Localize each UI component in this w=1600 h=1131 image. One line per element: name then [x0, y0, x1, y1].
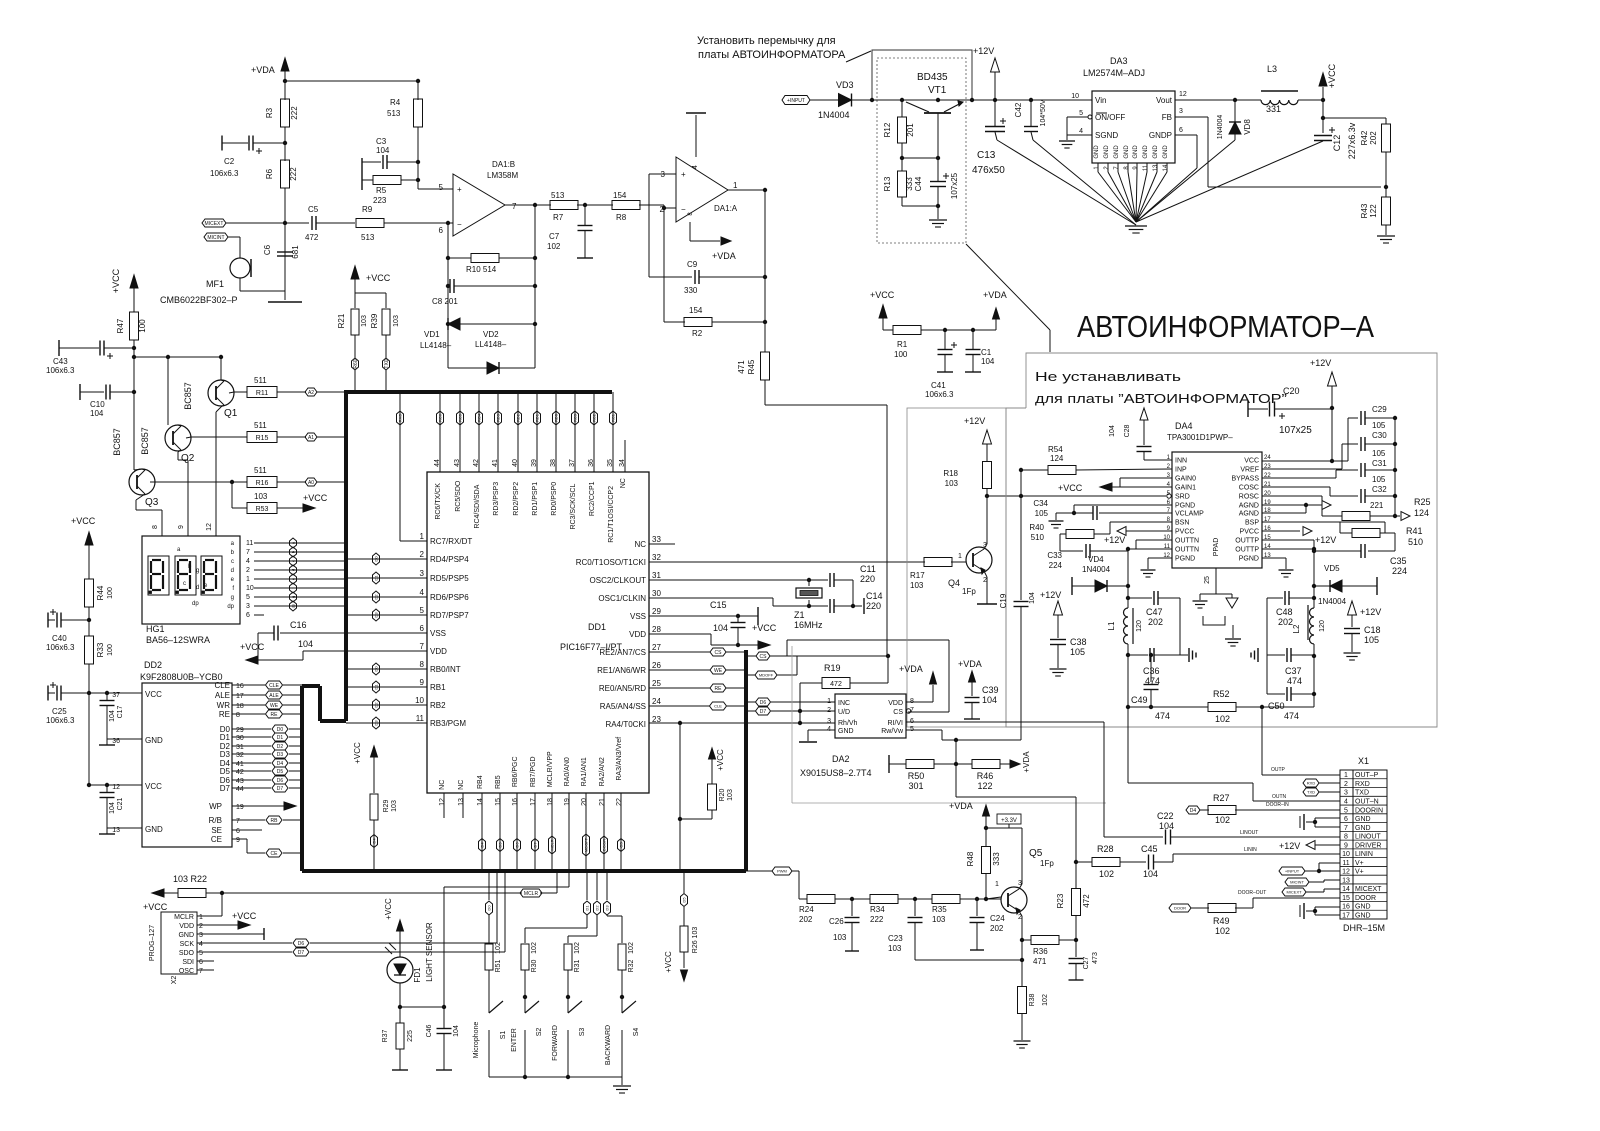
svg-text:C22: C22 [1157, 811, 1174, 821]
svg-text:CLE: CLE [714, 704, 722, 709]
resistor R26 [680, 926, 688, 952]
ground at DA3 pin4/5 [1059, 140, 1075, 142]
svg-text:PROG–127: PROG–127 [149, 925, 156, 961]
svg-text:GND: GND [145, 825, 163, 834]
net flag A2 [305, 388, 317, 396]
resistor R31 [564, 944, 572, 970]
capacitor C47 [1128, 597, 1152, 599]
DA4 PGND pin6 to ground [1074, 504, 1172, 506]
VDD pin7 wire to +VCC arrow [303, 650, 427, 652]
svg-text:5: 5 [1079, 110, 1083, 117]
svg-text:WR: WR [217, 701, 231, 710]
DA4 PGND pin12 ground [1148, 557, 1172, 559]
resistor R18 [983, 462, 992, 489]
svg-text:RB6/PGC: RB6/PGC [512, 756, 519, 787]
resistor R52 [1208, 703, 1236, 712]
svg-text:COSC: COSC [1239, 485, 1259, 492]
right capacitor rail [1394, 418, 1396, 516]
svg-text:VREF: VREF [1240, 467, 1259, 474]
svg-text:C27: C27 [1083, 956, 1090, 969]
resistor R3 [284, 81, 286, 100]
svg-text:D6: D6 [277, 778, 284, 784]
svg-text:154: 154 [689, 306, 703, 315]
svg-text:Z1: Z1 [794, 610, 805, 620]
svg-text:6: 6 [199, 959, 203, 966]
svg-text:R38: R38 [1029, 993, 1036, 1006]
resistor R12 [901, 100, 903, 117]
svg-text:RE0/AN5/RD: RE0/AN5/RD [599, 684, 646, 693]
svg-text:105: 105 [1372, 449, 1386, 458]
svg-text:RC6/TX/CK: RC6/TX/CK [435, 483, 442, 520]
svg-text:dp: dp [227, 604, 234, 610]
svg-text:3: 3 [1179, 108, 1183, 115]
svg-text:1: 1 [995, 881, 999, 888]
svg-text:MCLR: MCLR [524, 891, 539, 897]
wire DA1:A pin3 network [649, 173, 676, 175]
svg-text:R46: R46 [977, 771, 994, 781]
svg-text:WP: WP [209, 802, 222, 811]
svg-text:+: + [681, 170, 686, 179]
svg-text:MDOFF: MDOFF [759, 673, 774, 678]
resistor R37 [399, 1007, 401, 1023]
DD1 pin32 wire to R17 [649, 561, 925, 563]
wire R9 to op-amp inverting input [384, 222, 453, 224]
capacitor C5 [285, 222, 309, 224]
svg-text:7: 7 [236, 818, 240, 825]
svg-text:OUTN: OUTN [1272, 794, 1287, 800]
DD1 pin27 CS wire with flag [649, 651, 710, 653]
resistor R1 [883, 329, 893, 331]
svg-text:16: 16 [1342, 904, 1350, 911]
svg-text:6: 6 [439, 226, 444, 235]
svg-text:102: 102 [628, 942, 635, 954]
svg-text:CS: CS [893, 709, 903, 716]
capacitor C11 [809, 579, 828, 581]
svg-text:VD1: VD1 [424, 330, 440, 339]
svg-text:RD2/PSP2: RD2/PSP2 [513, 482, 520, 516]
svg-text:472: 472 [830, 681, 842, 688]
svg-text:D0: D0 [487, 905, 492, 911]
resistor R53 [231, 482, 233, 508]
svg-text:RB1: RB1 [430, 683, 446, 692]
svg-text:c: c [231, 559, 234, 565]
svg-text:DOOR: DOOR [1174, 906, 1186, 911]
svg-text:7: 7 [199, 968, 203, 975]
switch S1 ENTER [489, 1001, 503, 1013]
svg-text:BD435: BD435 [917, 72, 948, 83]
svg-text:A2: A2 [308, 390, 314, 396]
svg-text:105: 105 [1070, 647, 1085, 657]
display HG1 BA56-12SWRA [142, 536, 240, 624]
svg-text:R6: R6 [265, 168, 274, 179]
svg-text:4: 4 [1079, 128, 1083, 135]
svg-text:104: 104 [981, 357, 995, 366]
svg-text:C38: C38 [1070, 637, 1087, 647]
svg-text:CS: CS [619, 842, 624, 848]
DA4 ROSC pin20 wire with 221 resistor [1262, 495, 1322, 497]
svg-text:RE: RE [271, 712, 279, 718]
svg-text:6: 6 [246, 612, 250, 619]
svg-text:26: 26 [652, 661, 661, 670]
svg-text:15: 15 [495, 798, 502, 806]
svg-text:10: 10 [1342, 851, 1350, 858]
svg-text:OUTP: OUTP [1271, 767, 1286, 773]
svg-text:D1: D1 [220, 733, 231, 742]
capacitor C27 [1069, 958, 1084, 960]
wire R26 column [683, 871, 685, 893]
capacitor C8 [449, 279, 451, 293]
svg-text:3: 3 [199, 932, 203, 939]
resistor R41 [1352, 529, 1380, 538]
svg-text:C40: C40 [52, 634, 67, 643]
svg-text:106x6.3: 106x6.3 [46, 643, 75, 652]
svg-text:RXD: RXD [1307, 781, 1316, 786]
svg-text:PVCC: PVCC [1175, 529, 1194, 536]
svg-text:510: 510 [1408, 537, 1423, 547]
svg-text:VCLAMP: VCLAMP [1175, 511, 1204, 518]
svg-text:100: 100 [107, 644, 114, 656]
resistor R43 [1382, 197, 1391, 225]
svg-text:OUT–N: OUT–N [1355, 798, 1379, 805]
svg-text:104: 104 [109, 710, 116, 722]
svg-text:D2: D2 [595, 905, 600, 911]
svg-text:X9015US8–2.7T4: X9015US8–2.7T4 [800, 768, 872, 778]
svg-text:C24: C24 [990, 914, 1005, 923]
svg-text:+VDA: +VDA [983, 290, 1007, 300]
svg-text:D4: D4 [277, 761, 284, 767]
svg-text:RC2/CCP1: RC2/CCP1 [589, 481, 596, 516]
inductor L2 [1310, 608, 1315, 644]
svg-text:8: 8 [1344, 834, 1348, 841]
+VDA output marker of DA1:A [689, 222, 691, 241]
transistor Q4 [966, 547, 992, 573]
svg-text:c: c [183, 581, 186, 587]
svg-text:TX0: TX0 [384, 359, 390, 368]
switch S3 [568, 1001, 582, 1013]
DD1 top pin wires with flags [439, 392, 441, 472]
net flag MICINT to X1 pin13 [1285, 878, 1309, 886]
DD1 pin28 VDD wire to +VCC arrow [649, 633, 711, 635]
svg-text:NC: NC [620, 478, 627, 488]
svg-text:R13: R13 [883, 176, 892, 191]
resistor R24 [807, 895, 835, 904]
ground below R43 [1385, 225, 1387, 235]
svg-text:C8 201: C8 201 [432, 297, 458, 306]
svg-text:CE: CE [211, 835, 222, 844]
svg-text:MICEXT: MICEXT [1286, 890, 1302, 895]
svg-text:R54: R54 [1048, 445, 1063, 454]
svg-text:D5: D5 [498, 842, 503, 848]
svg-text:D6: D6 [760, 700, 767, 706]
svg-text:R18: R18 [943, 469, 958, 478]
svg-text:SDO: SDO [179, 950, 195, 957]
svg-text:R12: R12 [883, 122, 892, 137]
svg-text:Q1: Q1 [224, 408, 238, 419]
svg-text:OUTTN: OUTTN [1175, 538, 1199, 545]
power +VCC right [1322, 87, 1324, 100]
svg-text:R43: R43 [1360, 203, 1369, 218]
svg-text:11: 11 [246, 540, 253, 547]
net flag below R39 [383, 358, 390, 370]
capacitor C33 [1060, 550, 1083, 552]
svg-text:D5: D5 [682, 897, 687, 903]
flag column S1 from bus [488, 871, 490, 900]
svg-text:C44: C44 [914, 176, 923, 191]
svg-text:513: 513 [387, 109, 401, 118]
svg-text:5: 5 [199, 950, 203, 957]
svg-text:LL4148–: LL4148– [420, 341, 452, 350]
svg-text:OSC2/CLKOUT: OSC2/CLKOUT [590, 576, 647, 585]
net flag CS right of bus [756, 652, 770, 660]
net flag A1 [305, 433, 317, 441]
svg-text:681: 681 [291, 245, 300, 259]
svg-text:R4: R4 [390, 98, 401, 107]
svg-text:RC4: RC4 [477, 413, 482, 422]
svg-text:DA3: DA3 [1110, 56, 1128, 66]
svg-text:+VCC: +VCC [752, 623, 777, 633]
svg-text:A0: A0 [308, 480, 314, 486]
svg-text:C39: C39 [982, 685, 999, 695]
svg-text:104*50V: 104*50V [1040, 99, 1047, 126]
svg-text:D2: D2 [374, 702, 379, 708]
svg-text:44: 44 [236, 786, 244, 793]
svg-text:103: 103 [254, 492, 268, 501]
rotated ground right of C36 [1180, 654, 1188, 656]
svg-text:R23: R23 [1056, 893, 1065, 908]
svg-text:RB: RB [271, 818, 279, 824]
svg-text:R35: R35 [932, 905, 947, 914]
DA4 BSN pin8 to R40 [1110, 521, 1172, 523]
svg-text:17: 17 [530, 798, 537, 806]
svg-text:Microphone: Microphone [473, 1022, 480, 1059]
DD1 pin33 NC stub [649, 543, 675, 545]
svg-text:D3: D3 [605, 905, 610, 911]
wire pin23 down to bus with R20 tap [679, 723, 681, 871]
svg-text:R15: R15 [256, 435, 269, 442]
svg-text:SGND: SGND [1095, 131, 1118, 140]
svg-text:RC5/SDO: RC5/SDO [455, 480, 462, 512]
svg-text:C21: C21 [117, 797, 124, 810]
capacitor C24 [976, 899, 978, 916]
net flag below R21 [352, 358, 359, 370]
IC DD1 PIC16F77-I/PT [427, 472, 649, 793]
wire Q1 collector to display [216, 407, 221, 412]
svg-text:LL4148–: LL4148– [475, 340, 507, 349]
svg-text:R16: R16 [256, 480, 269, 487]
wire R3-R6 [284, 127, 286, 161]
svg-text:RC7/RX/DT: RC7/RX/DT [430, 537, 472, 546]
svg-text:6: 6 [1179, 127, 1183, 134]
svg-text:VSS: VSS [430, 629, 446, 638]
svg-text:1: 1 [958, 553, 962, 560]
svg-text:9: 9 [420, 678, 425, 687]
capacitor C3 [361, 158, 363, 190]
net flag MICEXT to X1 pin14 [1282, 888, 1306, 896]
resistor R23 [1072, 889, 1081, 916]
resistor R39 [382, 309, 390, 335]
svg-text:C6: C6 [263, 244, 272, 255]
svg-text:WE: WE [714, 668, 723, 674]
svg-text:+12V: +12V [1040, 590, 1061, 600]
svg-text:222: 222 [870, 915, 884, 924]
wire DA1:A output down [728, 189, 765, 191]
DA4 PGND pin13 ground [1262, 557, 1286, 559]
svg-text:RA0/AN0: RA0/AN0 [564, 757, 571, 786]
svg-text:BC857: BC857 [112, 428, 122, 456]
svg-text:L3: L3 [1267, 64, 1277, 74]
svg-text:106x6.3: 106x6.3 [46, 716, 75, 725]
svg-text:1N4004: 1N4004 [1217, 115, 1224, 140]
svg-text:DD1: DD1 [588, 622, 606, 632]
svg-text:124: 124 [1050, 454, 1064, 463]
resistor R36 [1022, 939, 1031, 941]
svg-text:VD8: VD8 [1243, 119, 1252, 135]
svg-text:Rh/Vh: Rh/Vh [838, 720, 858, 727]
thick bus top horizontal [344, 390, 612, 394]
svg-text:C11: C11 [860, 564, 876, 574]
wire R45 to CS node [764, 380, 766, 405]
svg-text:C1: C1 [981, 348, 992, 357]
svg-text:+12V: +12V [964, 416, 985, 426]
svg-text:GND: GND [178, 932, 194, 939]
svg-text:R3: R3 [265, 107, 274, 118]
X2 pin3 GND stub [197, 933, 264, 935]
svg-text:RE1/AN6/WR: RE1/AN6/WR [597, 666, 646, 675]
svg-text:A1: A1 [308, 435, 314, 441]
svg-text:301: 301 [908, 781, 923, 791]
svg-text:103: 103 [945, 479, 959, 488]
svg-text:6: 6 [236, 828, 240, 835]
svg-text:33: 33 [652, 535, 661, 544]
svg-text:R60: R60 [353, 359, 359, 368]
capacitor C22 on LINOUT [1165, 830, 1167, 845]
resistor R45 [761, 352, 770, 380]
resistor R2 [664, 321, 685, 323]
svg-text:MF1: MF1 [206, 279, 224, 289]
resistor R30 [521, 944, 529, 970]
svg-text:106x6.3: 106x6.3 [210, 169, 239, 178]
svg-text:NC: NC [458, 780, 465, 790]
svg-text:RD2: RD2 [516, 413, 521, 422]
svg-text:C26: C26 [829, 917, 844, 926]
resistor R7 [550, 201, 578, 210]
svg-text:RB5: RB5 [495, 775, 502, 789]
DA4 VREF pin23 wire to C30 [1262, 468, 1342, 470]
svg-text:FB: FB [1162, 113, 1172, 122]
svg-text:RD3: RD3 [496, 413, 501, 422]
DA4 PVCC pin16 +12V arrow [1262, 530, 1300, 532]
svg-text:511: 511 [254, 466, 267, 475]
svg-text:DA2: DA2 [832, 754, 850, 764]
svg-text:7: 7 [246, 549, 250, 556]
wire DA4 OUTN to X1 OUT-N [1127, 707, 1129, 783]
svg-text:513: 513 [361, 233, 375, 242]
svg-text:Не устанавливать: Не устанавливать [1035, 369, 1181, 384]
svg-text:C31: C31 [1372, 459, 1387, 468]
svg-text:30: 30 [236, 735, 244, 742]
svg-text:R44: R44 [96, 585, 105, 600]
resistor R4 [417, 81, 419, 100]
svg-text:+: + [457, 185, 462, 194]
X1 ground pins 6-7 [1315, 817, 1340, 819]
svg-text:R25: R25 [1414, 497, 1431, 507]
wire RA0 jog to light sensor [568, 793, 570, 887]
DD1 pin31 OSC2 wire to crystal [649, 579, 809, 581]
resistor R35 [932, 895, 960, 904]
svg-text:R2: R2 [692, 329, 703, 338]
resistor R38 [1018, 987, 1027, 1014]
svg-text:1Fp: 1Fp [1040, 859, 1054, 868]
svg-text:RE: RE [715, 686, 723, 692]
transistor Q5 [1001, 887, 1027, 913]
resistor R48 [982, 847, 991, 874]
wire Q5 collector to +3.3V [1019, 884, 1022, 889]
svg-text:R27: R27 [1213, 793, 1230, 803]
svg-text:Q5: Q5 [1029, 848, 1043, 859]
svg-text:104: 104 [298, 639, 313, 649]
svg-text:D7: D7 [533, 842, 538, 848]
svg-text:VD4: VD4 [1088, 555, 1104, 564]
svg-text:RA4/T0CKI: RA4/T0CKI [606, 720, 646, 729]
svg-text:RC6: RC6 [438, 413, 443, 422]
svg-text:GND: GND [1163, 145, 1169, 159]
svg-text:3: 3 [827, 718, 831, 725]
net flag DOOR with R49 [1169, 904, 1191, 912]
DA2 pin4 GND [808, 729, 835, 731]
rotated ground left of C37 [1257, 648, 1259, 662]
svg-text:R5: R5 [376, 186, 387, 195]
svg-text:VDD: VDD [888, 700, 903, 707]
capacitor C23 [914, 899, 916, 916]
wire C12 to star ground [1136, 141, 1323, 222]
DA4 OUTTN pins to left rail [1136, 539, 1172, 541]
svg-text:C37: C37 [1285, 666, 1302, 676]
PPAD ground cluster [1200, 593, 1216, 595]
svg-text:102: 102 [547, 242, 561, 251]
svg-text:16MHz: 16MHz [794, 620, 823, 630]
svg-text:CLE: CLE [269, 683, 279, 689]
resistor R9 [356, 219, 384, 228]
capacitor C41 [944, 330, 946, 349]
svg-text:224: 224 [1049, 561, 1063, 570]
svg-text:27: 27 [652, 643, 661, 652]
svg-text:1N4004: 1N4004 [818, 110, 850, 120]
svg-text:−: − [457, 220, 462, 229]
net flag TXD [1303, 788, 1319, 796]
svg-text:D3: D3 [220, 750, 231, 759]
open end bar below C6 [268, 301, 302, 303]
svg-text:104: 104 [109, 802, 116, 814]
svg-text:225: 225 [407, 1030, 414, 1042]
svg-text:14: 14 [1163, 164, 1169, 171]
svg-text:MICEXT: MICEXT [205, 221, 224, 227]
svg-text:24: 24 [652, 697, 661, 706]
net arrow R25 [1395, 515, 1400, 517]
svg-text:ALE: ALE [269, 693, 279, 699]
svg-text:+12V: +12V [973, 46, 994, 56]
svg-text:dp: dp [192, 601, 199, 607]
region outline lower extension [791, 646, 793, 803]
svg-text:RD5/PSP5: RD5/PSP5 [430, 574, 469, 583]
svg-text:C33: C33 [1047, 551, 1062, 560]
svg-text:472: 472 [1082, 894, 1091, 908]
svg-text:Vout: Vout [1156, 96, 1173, 105]
svg-text:C28: C28 [1124, 424, 1131, 437]
svg-text:R47: R47 [116, 318, 125, 333]
DD1 pin29 VSS wire with C15 [649, 615, 758, 617]
feedback rail right [534, 205, 536, 368]
svg-text:R30: R30 [531, 959, 538, 972]
